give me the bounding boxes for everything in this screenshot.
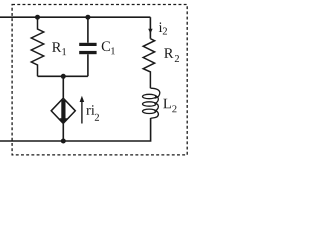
- resistor R1: [31, 17, 43, 76]
- label R2: [164, 48, 179, 62]
- label R1: [52, 42, 66, 55]
- label C1: [102, 41, 115, 54]
- reference arrow for source: [80, 96, 85, 124]
- label L2: [163, 99, 176, 113]
- node dot at C1 top: [85, 15, 90, 20]
- label ri2: [86, 105, 99, 121]
- dependent current source diamond: [51, 98, 75, 124]
- wire right branch down from corner: [149, 17, 151, 39]
- current arrow i2: [148, 29, 152, 34]
- inductor L2: [143, 88, 160, 118]
- wire mid horizontal (R1 bottom to C1 bottom): [38, 75, 88, 77]
- enclosure dashed box: [12, 5, 187, 155]
- node dot at R1 top: [35, 15, 40, 20]
- label i2: [159, 22, 167, 34]
- wire bottom with right corner: [0, 118, 151, 141]
- resistor R2: [143, 39, 154, 88]
- wire source top lead: [62, 76, 64, 98]
- node dot bottom wire: [61, 139, 66, 144]
- wire source bottom lead: [62, 123, 64, 141]
- capacitor C1: [79, 17, 96, 76]
- node dot mid wire: [61, 74, 66, 79]
- wire top horizontal: [0, 16, 150, 18]
